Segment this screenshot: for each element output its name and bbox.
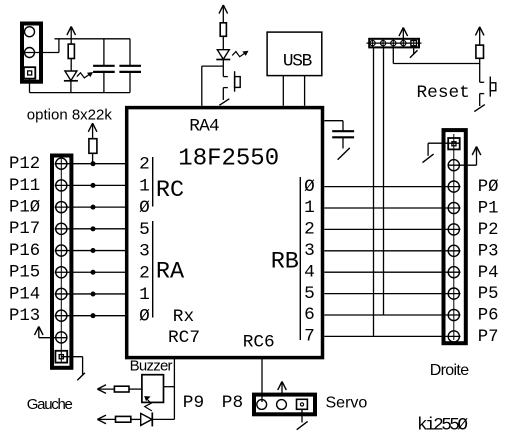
label P8 (222, 393, 243, 413)
svg-text:RB: RB (271, 248, 299, 275)
svg-text:Reset: Reset (417, 83, 470, 103)
wire P15 J2 to IC (55, 271, 125, 273)
svg-text:RA4: RA4 (189, 116, 219, 136)
wire P11 J2 to IC (55, 184, 125, 186)
svg-text:5: 5 (139, 220, 150, 240)
connector J4 pin P2 (448, 224, 459, 235)
connector J5 pin 1 (257, 400, 267, 410)
label Rx (173, 307, 194, 327)
buzzer BZ1 arrow (145, 397, 152, 411)
pin group bar RC (152, 157, 154, 207)
wire J3 pin3 to reset net (393, 47, 479, 64)
wire J2 ground pin to ground (61, 357, 82, 375)
label RC7 pin name (168, 328, 200, 348)
arrow to left motor (P9 lower) (97, 415, 115, 424)
label Droite (430, 362, 470, 379)
label RC port (156, 177, 184, 204)
wire IC to capacitor C3 (324, 121, 343, 131)
connector J4 pin P6 (448, 309, 459, 320)
connector J4 pin P3 (448, 245, 459, 256)
connector J3 ICSP (5-pin) (369, 39, 419, 48)
pin number 1 (right row 1) (304, 198, 315, 218)
svg-text:1: 1 (139, 176, 150, 196)
label P2 (478, 221, 499, 240)
power arrow +V (servo) (278, 382, 287, 395)
svg-text:P8: P8 (222, 393, 243, 413)
pin number 0 (right row 0) (304, 177, 315, 197)
wire P12 J2 to IC (55, 163, 125, 165)
svg-text:P12: P12 (9, 155, 40, 174)
pin number 0 (left row 7) (139, 307, 150, 327)
wire P14 J2 to IC (55, 293, 125, 295)
svg-text:RC7: RC7 (168, 328, 200, 348)
wire R3 to reset node (479, 58, 481, 82)
label Buzzer (130, 357, 173, 374)
LED D2 (216, 50, 230, 60)
label P14 (9, 285, 40, 304)
resistor R5 (116, 416, 131, 422)
svg-text:2: 2 (139, 155, 150, 175)
connector J4 Droite (10-pin) (444, 130, 466, 343)
power arrow +V (reset) (475, 27, 484, 45)
buzzer BZ1 body (142, 375, 164, 403)
connector J1 power input (3-pin) (22, 24, 41, 82)
junction dot P12 net (91, 162, 95, 166)
svg-text:Gauche: Gauche (27, 396, 73, 413)
junction dot P14 net (91, 292, 95, 296)
pin number 5 (right row 5) (304, 284, 315, 304)
wire P2 IC to J4 (324, 228, 460, 230)
connector J4 pin P1 (448, 202, 459, 213)
svg-text:P14: P14 (9, 285, 40, 304)
label RA4 pin name (189, 116, 219, 136)
pin number 0 (left row 2) (139, 198, 150, 218)
label Servo (326, 395, 368, 412)
svg-text:3: 3 (139, 242, 150, 262)
wire P1 IC to J4 (324, 207, 460, 209)
svg-text:Servo: Servo (326, 395, 368, 412)
wire J3 pin1 to P7 net (373, 47, 375, 336)
svg-text:RC: RC (156, 177, 184, 204)
wire USB D+ to IC (304, 76, 306, 106)
wire D1 to ground rail (70, 81, 72, 93)
junction dot P13 net (91, 313, 95, 317)
connector J1 pin 2 (25, 48, 35, 58)
connector J3 pin 2 (381, 39, 386, 48)
IC U1 18F2550 body (127, 108, 323, 358)
wire +V to J2 (39, 337, 68, 339)
connector J4 pin P0 (448, 181, 459, 192)
connector J4 ground pin (square pad) (448, 138, 460, 149)
pin number 1 (left row 1) (139, 176, 150, 196)
wire J3 pin5 to ground (413, 48, 415, 55)
label P5 (478, 285, 499, 304)
connector J3 pin 3 (391, 39, 396, 48)
label P4 (478, 264, 499, 283)
svg-text:P17: P17 (9, 220, 40, 239)
connector J2 pin P14 (56, 288, 67, 299)
label P15 (9, 264, 40, 283)
junction dot P16 net (91, 248, 95, 252)
connector J3 pin 1 (370, 39, 375, 48)
svg-text:P7: P7 (478, 328, 499, 347)
push button SW1 (223, 66, 240, 100)
svg-text:18F2550: 18F2550 (178, 145, 279, 172)
ground (servo) (297, 421, 308, 429)
pin number 2 (left row 0) (139, 155, 150, 175)
label RB port (271, 248, 299, 275)
wire J1 pin3 to ground rail (29, 79, 31, 93)
label P0 (478, 178, 499, 197)
connector J3 pin row line (367, 42, 422, 44)
wire P6 IC to J4 (324, 314, 460, 316)
resistor RN1 8x22k (89, 139, 97, 154)
connector J2 pin P16 (56, 245, 67, 256)
power arrow +V (J4) (472, 147, 481, 156)
junction dot P10 net (91, 205, 95, 209)
ground (J3) (410, 50, 418, 58)
svg-text:P4: P4 (478, 264, 499, 283)
connector J3 pin 5 (square pad) (411, 39, 417, 48)
wire R5 to LED D3 (131, 418, 141, 420)
svg-text:P6: P6 (478, 307, 499, 326)
wire P5 IC to J4 (324, 293, 460, 295)
wire RC6 to servo connector (261, 358, 263, 402)
wire J4 ground pin to ground (428, 143, 460, 156)
pin number 1 (left row 6) (139, 285, 150, 305)
wire J3 pin2 to P6 net (383, 47, 385, 315)
wire D2 to node RA4 (222, 60, 224, 67)
connector J2 pin P11 (56, 180, 67, 191)
ground (J4) (423, 154, 434, 163)
connector J2 pin P13 (56, 310, 67, 321)
wire node RA4 to IC (202, 66, 224, 106)
svg-text:Ø: Ø (139, 307, 150, 327)
connector J3 pin 4 (401, 39, 406, 48)
ground (J2) (77, 373, 85, 381)
svg-text:Ø: Ø (139, 198, 150, 218)
label P3 (478, 242, 499, 261)
svg-text:P9: P9 (183, 393, 204, 413)
label P6 (478, 307, 499, 326)
wire R2 to LED D2 (222, 36, 224, 49)
wire RN1 to P12 net (92, 153, 94, 163)
svg-text:5: 5 (304, 284, 315, 304)
wire +V top rail (55, 38, 131, 40)
pin number 2 (right row 2) (304, 220, 315, 240)
label P10 (9, 199, 40, 218)
wire P16 J2 to IC (55, 250, 125, 252)
pin number 3 (right row 3) (304, 241, 315, 261)
label 18F2550 (178, 145, 279, 172)
LED D1 (64, 71, 78, 81)
svg-text:P5: P5 (478, 285, 499, 304)
svg-text:3: 3 (304, 241, 315, 261)
svg-text:RA: RA (156, 258, 185, 285)
wire P3 IC to J4 (324, 250, 460, 252)
push button SW2 Reset (480, 77, 496, 107)
svg-text:6: 6 (304, 305, 315, 325)
wire R1 to LED D1 (70, 59, 72, 72)
connector J2 ground pin (square pad) (55, 351, 67, 363)
connector J5 Servo (3-pin) (254, 395, 315, 415)
power arrow +V (top-left LED) (67, 27, 76, 45)
connector J2 pin P12 (56, 158, 67, 169)
capacitor C3 (332, 131, 354, 137)
pin number 6 (right row 6) (304, 305, 315, 325)
svg-text:P16: P16 (9, 242, 40, 261)
connector J2 +V pin (56, 332, 67, 343)
resistor R1 (LED series) (68, 44, 74, 58)
connector J2 pin column line (60, 159, 62, 362)
wire J4 +V pin to arrow (448, 150, 477, 165)
wire P4 IC to J4 (324, 271, 460, 273)
wire P17 J2 to IC (55, 228, 125, 230)
power arrow +V (J3) (399, 28, 408, 41)
label P11 (9, 177, 40, 196)
LED D1 light arrow (77, 73, 92, 78)
wire P0 IC to J4 (324, 186, 460, 188)
connector J5 pin 3 (square pad) (297, 399, 308, 409)
wire R4 to BZ1 (129, 388, 142, 390)
connector J1 pin 1 (25, 27, 35, 37)
connector J4 pin column line (453, 134, 455, 340)
wire J5 pin3 to ground (301, 409, 303, 422)
svg-text:2: 2 (139, 263, 150, 283)
label ki2550 (417, 416, 468, 436)
svg-text:1: 1 (304, 198, 315, 218)
pin number 3 (left row 4) (139, 242, 150, 262)
label P9 (183, 393, 204, 413)
svg-text:Droite: Droite (430, 362, 470, 379)
svg-text:P1Ø: P1Ø (9, 199, 40, 218)
pin group bar RA (152, 221, 154, 318)
wire ground bottom rail (30, 92, 131, 94)
ground (SW1) (219, 99, 229, 106)
LED D2 light arrow (232, 51, 247, 56)
svg-text:option 8x22k: option 8x22k (27, 107, 113, 124)
svg-text:P2: P2 (478, 221, 499, 240)
svg-text:P3: P3 (478, 242, 499, 261)
svg-text:USB: USB (283, 52, 312, 72)
wire J1 pin2 to +V rail (jog) (24, 39, 59, 53)
label P16 (9, 242, 40, 261)
label P7 (478, 328, 499, 347)
label Reset (417, 83, 470, 103)
svg-text:Rx: Rx (173, 307, 194, 327)
wire P13 J2 to IC (55, 315, 125, 317)
connector J4 pin P5 (448, 288, 459, 299)
label P17 (9, 220, 40, 239)
resistor R4 (114, 386, 129, 392)
wire P7 IC to J4 (324, 335, 460, 337)
USB connector (267, 32, 322, 76)
power arrow +V (J2) (35, 327, 44, 338)
pin number 7 (right row 7) (304, 327, 315, 347)
capacitor C1 (93, 39, 115, 93)
arrow to left motor (P9 upper) (97, 385, 114, 394)
label RA port (156, 258, 185, 285)
pin number 2 (left row 5) (139, 263, 150, 283)
junction dot P15 net (91, 270, 95, 274)
svg-text:Ø: Ø (304, 177, 315, 197)
label P12 (9, 155, 40, 174)
capacitor C2 (119, 39, 141, 93)
connector J1 pin 3 (square pad) (24, 67, 35, 78)
connector J4 +V pin (448, 160, 459, 171)
label RC6 pin name (243, 333, 275, 353)
connector J4 pin P4 (448, 267, 459, 278)
junction dot P11 net (91, 183, 95, 187)
pin group bar RB (299, 177, 301, 340)
label option 8x22k (27, 107, 113, 124)
connector J4 pin P7 (448, 331, 459, 342)
wire P10 J2 to IC (55, 206, 125, 208)
connector J2 Gauche (10-pin) (52, 156, 71, 368)
svg-text:P15: P15 (9, 264, 40, 283)
svg-text:P1: P1 (478, 200, 499, 219)
label P1 (478, 200, 499, 219)
connector J2 pin P15 (56, 267, 67, 278)
junction dot P17 net (91, 227, 95, 231)
svg-text:1: 1 (139, 285, 150, 305)
svg-text:P13: P13 (9, 307, 40, 326)
label Gauche (27, 396, 73, 413)
svg-text:Buzzer: Buzzer (130, 357, 173, 374)
svg-text:P11: P11 (9, 177, 40, 196)
connector J2 pin P17 (56, 223, 67, 234)
ground (SW2) (474, 105, 485, 112)
power arrow +V (pull-up) (88, 123, 97, 139)
svg-text:7: 7 (304, 327, 315, 347)
ground (C3) (338, 148, 350, 160)
svg-text:RC6: RC6 (243, 333, 275, 353)
label P13 (9, 307, 40, 326)
wire BZ1 to RC7 net (164, 386, 175, 388)
resistor R2 (RA4 LED) (220, 23, 226, 37)
wire D3 to RC7 net (152, 418, 174, 420)
pin number 4 (right row 4) (304, 262, 315, 282)
wire RC7 net vertical (173, 358, 175, 420)
connector J2 pin P10 (56, 202, 67, 213)
power arrow +V (RA4 LED) (219, 5, 228, 23)
svg-text:ki255Ø: ki255Ø (417, 416, 468, 436)
svg-text:PØ: PØ (478, 178, 499, 197)
wire C3 to ground (342, 138, 344, 149)
svg-text:2: 2 (304, 220, 315, 240)
wire USB D- to IC (282, 76, 284, 106)
svg-text:4: 4 (304, 262, 315, 282)
LED D3 (141, 412, 153, 426)
pin number 5 (left row 3) (139, 220, 150, 240)
connector J5 pin 2 (277, 400, 287, 410)
resistor R3 (reset pull-up) (476, 45, 484, 58)
label USB (283, 52, 312, 72)
